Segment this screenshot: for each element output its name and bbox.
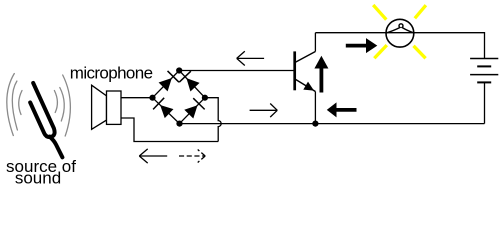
- node: bridge left: [149, 95, 155, 101]
- node: bridge right: [202, 95, 208, 101]
- current arrow: thin left above base wire: [237, 51, 264, 65]
- node: bridge bottom: [176, 121, 182, 127]
- wire emitter down to junction: [314, 92, 316, 124]
- current arrow: thin dashed right below mic rail: [179, 150, 205, 163]
- wire mic bottom to lower rail: [121, 118, 218, 142]
- diode D1 top-left (points to top node): [159, 71, 179, 91]
- node: bridge top: [176, 67, 182, 73]
- wire bridge right node down with hop over bottom rail: [205, 98, 221, 142]
- diode D4 bottom-right (points to right node): [184, 98, 204, 118]
- current arrow: thick left on bottom rail: [327, 102, 357, 117]
- battery B1: [470, 59, 498, 124]
- lamp L1: [386, 19, 414, 47]
- current arrow: thin right below base wire: [250, 104, 278, 118]
- wire bridge top node to transistor base: [179, 70, 294, 72]
- lamp rays: [373, 5, 426, 58]
- current arrow: thin solid left below mic rail: [139, 149, 167, 163]
- microphone SPKR1: [92, 85, 121, 129]
- diode D3 bottom-left (points to left node): [153, 98, 173, 118]
- svg-text:sound: sound: [15, 169, 61, 188]
- current arrow: thick up beside transistor: [314, 56, 328, 93]
- current arrow: thick right before lamp: [346, 38, 378, 53]
- wire mic top to bridge left node: [121, 97, 153, 99]
- diode D2 top-right (points to top node): [179, 71, 199, 91]
- label: source of sound: [6, 157, 76, 188]
- wire bridge diamond frame: [153, 71, 205, 124]
- wire bottom rail (bridge bottom node to battery): [180, 123, 485, 125]
- label: microphone: [70, 63, 153, 82]
- sound waves left: [7, 74, 22, 136]
- wire top rail to battery: [315, 33, 484, 59]
- sound waves right: [54, 75, 70, 136]
- wire collector up to top rail: [314, 33, 316, 52]
- junction: emitter to bottom rail: [312, 121, 318, 127]
- transistor Q1: [295, 51, 316, 91]
- tuning fork: [30, 83, 62, 157]
- svg-text:microphone: microphone: [70, 63, 153, 82]
